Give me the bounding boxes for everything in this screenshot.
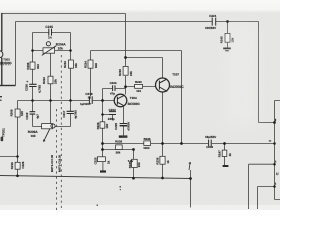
capacitor C218 — [89, 96, 92, 104]
speck dot low — [97, 205, 98, 206]
capacitor C232 — [209, 140, 212, 147]
junction (133.5,178.2) — [132, 177, 135, 180]
svg-text:1k0: 1k0 — [105, 123, 109, 128]
resistor R245 — [225, 33, 230, 42]
svg-text:47/63V: 47/63V — [126, 122, 130, 131]
wire x15 vertical — [15, 22, 17, 86]
speck dot — [120, 189, 121, 190]
svg-text:R214: R214 — [83, 61, 87, 68]
junction (227.5,21.5) — [226, 20, 229, 23]
ground under R245 — [223, 47, 231, 49]
wire x125 column — [125, 14, 127, 95]
svg-text:C224: C224 — [110, 81, 117, 85]
wire x50 wiper column — [50, 53, 52, 123]
wire feedback box top — [33, 32, 71, 34]
wire lower rail y149 — [103, 150, 134, 179]
wire y186 loop — [258, 187, 275, 210]
wire right frame — [275, 101, 281, 200]
capacitor C221 — [212, 18, 216, 26]
svg-text:10k: 10k — [137, 162, 141, 167]
capacitor C225 — [97, 157, 105, 162]
speck label fragment — [122, 136, 127, 138]
wire y57.5 collector link — [126, 58, 163, 79]
wire C221 branch — [227, 22, 229, 48]
junction (274.5,122.5) — [273, 121, 276, 124]
wire x258 drop — [259, 22, 275, 123]
svg-text:C221: C221 — [209, 14, 217, 18]
wire x17 column — [17, 101, 19, 176]
svg-text:18µ/55V: 18µ/55V — [205, 135, 216, 139]
wire pot row — [33, 126, 71, 128]
svg-text:R241: R241 — [135, 80, 142, 84]
svg-text:R226: R226 — [96, 122, 100, 129]
svg-text:1µ: 1µ — [88, 96, 92, 100]
capacitor C215 — [49, 29, 52, 36]
wire y85 bottom of input box — [0, 85, 16, 87]
wire T207 emitter column — [162, 92, 164, 178]
svg-text:BC560C: BC560C — [128, 102, 141, 106]
junction (125.5,86.7) — [124, 85, 127, 88]
speck left edge a — [0, 96, 2, 97]
svg-text:C215: C215 — [45, 25, 53, 29]
svg-text:4,7/63: 4,7/63 — [38, 85, 42, 93]
paper background — [0, 0, 280, 210]
wire T207 base — [126, 86, 156, 88]
capacitor C222 — [109, 112, 116, 115]
resistor R214 — [88, 60, 93, 68]
wire y50.5 long — [91, 50, 182, 52]
svg-text:100/63V: 100/63V — [205, 26, 216, 30]
wire bottom rail — [0, 176, 191, 179]
svg-text:R238: R238 — [115, 140, 122, 144]
svg-text:1k: 1k — [166, 160, 170, 164]
pin tick L — [275, 183, 276, 185]
svg-text:TP201: TP201 — [2, 128, 6, 137]
wire input y100 — [18, 100, 115, 102]
ground under C225 — [100, 170, 106, 172]
resistor R240 — [132, 159, 138, 167]
svg-text:R205: R205 — [26, 62, 30, 69]
junction (17.5,175.8) — [16, 174, 19, 177]
wire T204 emitter — [122, 107, 124, 136]
transistor T207 — [156, 78, 170, 92]
svg-text:56k: 56k — [116, 151, 121, 155]
svg-text:10k: 10k — [129, 71, 133, 76]
svg-text:10k: 10k — [58, 47, 64, 51]
junction (162.5,178) — [161, 177, 164, 180]
svg-text:1k3: 1k3 — [136, 89, 141, 93]
resistor R247 — [222, 150, 227, 156]
svg-text:BC550C: BC550C — [170, 85, 184, 89]
svg-text:T204: T204 — [130, 96, 137, 100]
junction (102.5,114.5) — [101, 113, 104, 116]
svg-text:47p: 47p — [110, 92, 115, 96]
svg-text:1k: 1k — [228, 153, 232, 157]
wire C224 row — [103, 88, 126, 90]
svg-text:C216: C216 — [24, 84, 28, 91]
resistor R226 — [100, 122, 105, 128]
svg-text:C219: C219 — [25, 112, 29, 119]
svg-text:15k: 15k — [74, 63, 78, 68]
wire y156 stub — [0, 156, 18, 158]
resistor R219 — [123, 66, 128, 75]
ground under C220 — [119, 135, 128, 137]
capacitor C224 — [113, 85, 115, 91]
resistor R241 — [135, 84, 143, 88]
wire x33 column — [32, 51, 34, 127]
resistor R239 — [160, 156, 165, 164]
wire x103 column — [102, 89, 104, 171]
junction (181.5,143.5) — [180, 142, 183, 145]
wire x91 column — [90, 51, 92, 97]
svg-text:C217: C217 — [62, 110, 66, 117]
svg-text:BC550C: BC550C — [0, 61, 12, 65]
resistor R212 — [48, 76, 53, 84]
wire x181 column — [181, 51, 183, 144]
test point blob TP — [1, 137, 4, 142]
svg-text:R208: R208 — [10, 109, 14, 116]
svg-text:6k8: 6k8 — [94, 63, 98, 68]
pin tick B — [275, 119, 276, 121]
svg-text:R212: R212 — [42, 77, 46, 84]
svg-text:R213: R213 — [63, 61, 67, 68]
trimmer R204A — [43, 48, 55, 53]
wire left border — [1, 13, 3, 51]
pin tick mid — [275, 161, 276, 163]
svg-text:R219: R219 — [118, 69, 122, 76]
wire rail B — [16, 21, 259, 23]
wire C222 stub — [103, 115, 113, 121]
arrow test point bottom — [189, 163, 190, 170]
dashed coupling line 2 — [56, 109, 58, 210]
lighter patch right-center — [224, 22, 260, 126]
svg-text:C222: C222 — [109, 108, 117, 112]
transistor T204 — [114, 94, 127, 107]
wire top rail A — [2, 13, 126, 15]
junction (125.5,57.5) — [124, 56, 127, 59]
resistor R216 — [15, 162, 20, 169]
junction (70.5,100.5) — [69, 99, 72, 102]
resistor R238 — [116, 145, 123, 150]
wire y164 loop — [249, 164, 275, 209]
svg-text:7,8v: 7,8v — [128, 159, 134, 163]
wiper arrow R209A — [44, 128, 50, 139]
junction (32.5,100.5) — [31, 99, 34, 102]
svg-text:10k: 10k — [31, 134, 36, 138]
speck left edge b — [0, 100, 2, 101]
wire C232 branch — [224, 144, 226, 166]
resistor R246 — [144, 141, 151, 146]
transistor T203 — [0, 51, 3, 58]
svg-text:R239: R239 — [156, 157, 160, 164]
speck colon mark — [120, 186, 121, 188]
svg-text:10k: 10k — [53, 79, 57, 84]
svg-text:C226: C226 — [21, 161, 25, 168]
wire mid rail y143 — [103, 143, 275, 145]
junction (133.5,149.5) — [132, 148, 135, 151]
junction (102.5,143.5) — [101, 142, 104, 145]
wire feedback box sides — [33, 33, 71, 61]
junction (70.5,50.5) — [69, 49, 72, 52]
svg-text:M8T3-C17.35: M8T3-C17.35 — [50, 154, 54, 172]
wire feedback box bottom — [33, 50, 71, 52]
junction (17.5,156.5) — [16, 155, 19, 158]
svg-text:C225: C225 — [94, 157, 98, 164]
svg-text:220p: 220p — [108, 117, 115, 121]
svg-text:3k3: 3k3 — [36, 64, 40, 69]
capacitor C220 — [120, 123, 128, 125]
svg-text:1k0: 1k0 — [20, 111, 24, 116]
svg-text:C232: C232 — [206, 145, 213, 149]
svg-text:R246: R246 — [144, 137, 151, 141]
junction (224.5,143.5) — [223, 142, 226, 145]
svg-text:4µ7/63: 4µ7/63 — [73, 110, 77, 119]
junction (274.5,186.5) — [273, 185, 276, 188]
svg-text:1n: 1n — [48, 36, 52, 40]
junction (274.5,164.2) — [273, 163, 276, 166]
junction (32.5,50.5) — [31, 49, 34, 52]
resistor R205 — [30, 62, 35, 69]
wire x70 column — [70, 68, 72, 126]
dashed coupling line 1 — [60, 55, 62, 210]
scan specks left edge — [0, 96, 276, 206]
svg-text:T207: T207 — [172, 73, 179, 77]
svg-text:C220: C220 — [114, 122, 118, 129]
resistor R208 — [15, 109, 20, 117]
pin tick S — [269, 140, 271, 141]
capacitor C216 — [29, 84, 36, 86]
wire bottom drop x190 — [190, 170, 192, 208]
wire left border lower — [1, 58, 3, 85]
svg-text:100k: 100k — [143, 146, 150, 150]
junction (102.5,100.5) — [101, 99, 104, 102]
svg-text:M8T0-C18.35: M8T0-C18.35 — [57, 154, 61, 172]
trimmer R209A — [42, 124, 53, 129]
svg-text:R245: R245 — [220, 36, 224, 43]
junction (50.5,100.5) — [49, 99, 52, 102]
junction (274.5,143.5) — [273, 142, 276, 145]
svg-text:R247: R247 — [218, 150, 222, 157]
svg-text:R216: R216 — [10, 162, 14, 169]
junction (102.5,149.5) — [101, 148, 104, 151]
junction (190.5,178.5) — [189, 177, 192, 180]
svg-text:1µ/100V: 1µ/100V — [80, 102, 91, 106]
svg-text:1k: 1k — [107, 160, 111, 164]
ground under R247 — [223, 165, 229, 167]
svg-text:4µ7: 4µ7 — [36, 114, 40, 119]
junction (162.5,143.5) — [161, 142, 164, 145]
capacitor C217 — [67, 111, 74, 113]
capacitor C219 — [30, 112, 36, 114]
resistor R213 — [68, 60, 73, 68]
